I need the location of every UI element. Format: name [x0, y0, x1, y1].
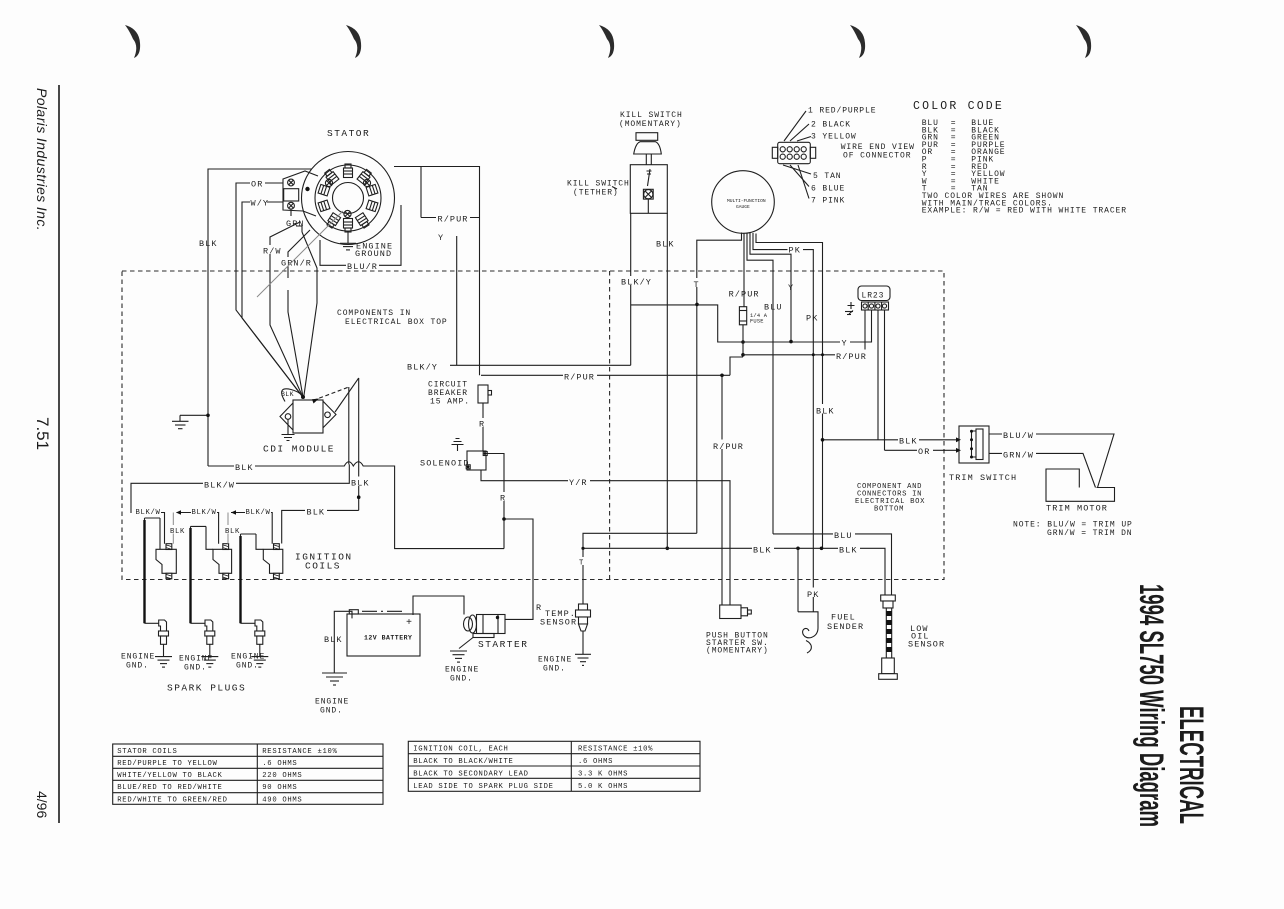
- punch hole crescents: [125, 25, 1091, 58]
- wire BLK bus lower: [583, 533, 697, 604]
- svg-text:.6 OHMS: .6 OHMS: [262, 760, 297, 768]
- wire R/W: [270, 222, 303, 397]
- svg-text:6 BLUE: 6 BLUE: [811, 185, 845, 194]
- svg-text:GND.: GND.: [450, 675, 473, 684]
- svg-text:RESISTANCE ±10%: RESISTANCE ±10%: [578, 746, 653, 754]
- svg-text:BLK: BLK: [199, 239, 218, 249]
- svg-text:1 RED/PURPLE: 1 RED/PURPLE: [808, 107, 876, 116]
- svg-text:PK: PK: [806, 314, 818, 324]
- wire BLK coil chain top: [282, 510, 359, 543]
- spark plug 3: [241, 622, 256, 624]
- engine ground battery: [322, 673, 347, 685]
- circuit breaker body: [478, 385, 488, 403]
- wire BLK to fuel sender: [797, 548, 799, 612]
- wire breaker to solenoid: [482, 403, 484, 451]
- label GRN/R: [280, 257, 309, 266]
- svg-text:BLK: BLK: [753, 546, 772, 556]
- wire R/PUR stator top-right: [394, 167, 480, 376]
- svg-text:Y: Y: [788, 283, 794, 293]
- wire Y bus to LR23: [718, 310, 872, 342]
- svg-text:EXAMPLE: R/W = RED WITH WHITE: EXAMPLE: R/W = RED WITH WHITE TRACER: [922, 207, 1127, 216]
- ignition coil 2: [191, 526, 214, 623]
- svg-text:7.51: 7.51: [33, 417, 52, 450]
- svg-text:ELECTRICAL: ELECTRICAL: [1172, 706, 1210, 824]
- CDI right tab: [323, 401, 336, 428]
- svg-text:5.0 K OHMS: 5.0 K OHMS: [578, 783, 628, 791]
- svg-text:12V BATTERY: 12V BATTERY: [364, 635, 412, 642]
- svg-text:490 OHMS: 490 OHMS: [262, 797, 302, 805]
- engine ground stator: [347, 231, 349, 244]
- svg-text:COILS: COILS: [305, 561, 341, 572]
- fuel sender: [798, 612, 818, 638]
- svg-text:GRN/R: GRN/R: [281, 259, 312, 269]
- dashed enclosure electrical box: [122, 271, 944, 580]
- starter ground: [459, 638, 473, 649]
- svg-text:R: R: [536, 603, 542, 613]
- svg-text:STATOR COILS: STATOR COILS: [117, 748, 177, 756]
- label PK lower: [806, 588, 822, 598]
- svg-text:GROUND: GROUND: [355, 249, 392, 259]
- svg-text:BLK: BLK: [324, 635, 343, 645]
- svg-text:3.3 K OHMS: 3.3 K OHMS: [578, 770, 628, 778]
- battery negative post: [349, 610, 358, 614]
- svg-text:GND.: GND.: [126, 662, 149, 671]
- junction kill BLK to ground bus: [666, 547, 670, 551]
- svg-text:BLK: BLK: [839, 546, 858, 556]
- svg-text:BLU/W: BLU/W: [1003, 431, 1034, 441]
- solenoid ground: [457, 445, 459, 452]
- wire GRN/W: [989, 453, 1096, 487]
- wire OR: [236, 183, 302, 396]
- svg-text:LR23: LR23: [862, 292, 885, 301]
- svg-text:RED/PURPLE TO YELLOW: RED/PURPLE TO YELLOW: [117, 760, 217, 768]
- svg-text:BLK/Y: BLK/Y: [621, 278, 652, 288]
- label W/Y: [250, 197, 267, 206]
- svg-text:(TETHER): (TETHER): [573, 189, 619, 198]
- svg-text:TRIM SWITCH: TRIM SWITCH: [949, 473, 1017, 483]
- wire T jog: [697, 305, 743, 342]
- svg-text:R/PUR: R/PUR: [729, 290, 760, 300]
- svg-text:GAUGE: GAUGE: [736, 204, 750, 210]
- svg-text:STATOR: STATOR: [327, 128, 370, 139]
- svg-text:GND.: GND.: [543, 665, 566, 674]
- svg-text:BLK: BLK: [170, 528, 185, 536]
- wire W/Y: [242, 202, 302, 396]
- svg-text:SENDER: SENDER: [827, 622, 864, 632]
- low oil sensor: [881, 595, 896, 601]
- wire R/PUR to push button: [721, 375, 723, 605]
- wire BLK bus horizontal: [208, 462, 504, 549]
- svg-text:KILL SWITCH: KILL SWITCH: [567, 180, 630, 189]
- wire BLK to trim switch: [823, 439, 957, 441]
- svg-text:GND.: GND.: [184, 664, 207, 673]
- svg-text:TRIM MOTOR: TRIM MOTOR: [1046, 504, 1108, 514]
- CDI convergence node: [301, 395, 305, 399]
- gauge harness fan: [697, 233, 742, 534]
- svg-text:Polaris Industries Inc.: Polaris Industries Inc.: [34, 88, 50, 231]
- connector body: [778, 142, 811, 163]
- stator coils table: [113, 744, 383, 804]
- svg-text:SOLENOID: SOLENOID: [420, 459, 470, 469]
- svg-text:R/PUR: R/PUR: [564, 373, 595, 383]
- wire CDI vertical pair: [348, 387, 350, 464]
- svg-text:PK: PK: [807, 590, 819, 600]
- svg-text:RED/WHITE TO GREEN/RED: RED/WHITE TO GREEN/RED: [117, 797, 227, 805]
- svg-text:R/PUR: R/PUR: [713, 442, 744, 452]
- svg-text:BLK/W: BLK/W: [204, 481, 235, 491]
- svg-text:SENSOR: SENSOR: [540, 618, 577, 628]
- svg-text:OF CONNECTOR: OF CONNECTOR: [843, 152, 911, 161]
- svg-text:LEAD SIDE TO SPARK PLUG SIDE: LEAD SIDE TO SPARK PLUG SIDE: [413, 783, 553, 791]
- svg-text:IGNITION COIL, EACH: IGNITION COIL, EACH: [413, 746, 508, 754]
- wire kill switch left BLK/Y: [630, 213, 632, 365]
- ignition coil table: [408, 741, 700, 791]
- svg-text:BLACK TO SECONDARY LEAD: BLACK TO SECONDARY LEAD: [413, 770, 528, 778]
- svg-text:+: +: [406, 618, 412, 629]
- label BLK/W bus: [203, 479, 236, 489]
- svg-text:(MOMENTARY): (MOMENTARY): [706, 647, 769, 656]
- connector pins: [780, 147, 806, 160]
- svg-text:BLUE/RED TO RED/WHITE: BLUE/RED TO RED/WHITE: [117, 784, 222, 792]
- svg-text:T: T: [694, 280, 700, 290]
- stator mounting screws: [325, 179, 370, 217]
- junction dot BLK: [357, 495, 361, 499]
- kill switch body: [630, 165, 667, 214]
- svg-text:R/W: R/W: [263, 247, 282, 257]
- svg-text:BLU: BLU: [764, 303, 783, 313]
- svg-text:R/PUR: R/PUR: [438, 215, 469, 225]
- svg-text:RESISTANCE ±10%: RESISTANCE ±10%: [262, 748, 337, 756]
- svg-text:WHITE/YELLOW TO BLACK: WHITE/YELLOW TO BLACK: [117, 772, 222, 780]
- svg-text:BLK: BLK: [351, 479, 370, 489]
- wire BLK/Y bus: [450, 364, 631, 366]
- svg-text:COLOR CODE: COLOR CODE: [913, 100, 1004, 113]
- ignition coil 3: [241, 534, 264, 623]
- svg-text:BLK: BLK: [816, 407, 835, 417]
- spark plug 2: [191, 622, 206, 624]
- stator black pellet: [305, 187, 309, 191]
- pin leader lines: [783, 111, 811, 199]
- svg-text:BLK: BLK: [235, 463, 254, 473]
- label R/W: [262, 245, 279, 254]
- wire BLK stator top-left: [208, 169, 312, 466]
- svg-text:BLK/Y: BLK/Y: [407, 363, 438, 373]
- battery top dash-dot: [362, 610, 402, 612]
- label T small: [578, 557, 587, 565]
- svg-text:W/Y: W/Y: [251, 199, 270, 209]
- kill switch contact pin: [648, 169, 651, 186]
- svg-text:BLK: BLK: [656, 240, 675, 250]
- wire to temp sensor with label T: [696, 532, 698, 534]
- wire OR to trim switch: [885, 449, 957, 451]
- label T: [692, 278, 701, 287]
- label BLK vertical: [350, 477, 370, 487]
- svg-text:SENSOR: SENSOR: [908, 639, 945, 649]
- svg-text:R/PUR: R/PUR: [836, 352, 867, 362]
- wire CDI dashed input: [313, 387, 349, 401]
- svg-text:(MOMENTARY): (MOMENTARY): [619, 120, 682, 129]
- svg-text:5 TAN: 5 TAN: [813, 172, 842, 181]
- gauge circle: [712, 171, 775, 234]
- starter motor: [464, 617, 473, 631]
- stator outer circle: [302, 152, 395, 245]
- svg-text:SPARK PLUGS: SPARK PLUGS: [167, 683, 246, 694]
- wire battery negative BLK to ground: [334, 611, 352, 672]
- svg-text:ENGINE: ENGINE: [445, 666, 479, 675]
- CDI BLK loop wire: [282, 389, 303, 402]
- svg-text:OR: OR: [918, 447, 930, 457]
- svg-text:3 YELLOW: 3 YELLOW: [811, 133, 857, 142]
- sidebar rule left: [58, 85, 60, 823]
- trim motor: [1046, 469, 1115, 501]
- wire BLK/Y branch to gauge: [631, 304, 697, 306]
- label BLK chain: [305, 506, 327, 516]
- kill switch plunger: [636, 133, 658, 141]
- tether pointer: [612, 187, 617, 190]
- svg-text:BLK: BLK: [281, 391, 294, 398]
- svg-text:ELECTRICAL BOX TOP: ELECTRICAL BOX TOP: [345, 318, 448, 327]
- wire kill switch right BLK: [666, 213, 668, 548]
- stator lead diagonal: [257, 211, 343, 297]
- svg-text:BLU/R: BLU/R: [347, 262, 378, 272]
- svg-text:MULTI-FUNCTION: MULTI-FUNCTION: [727, 198, 766, 204]
- svg-text:4/96: 4/96: [34, 791, 50, 818]
- wire R/PUR bus: [481, 374, 730, 376]
- wire R/PUR top jog: [730, 357, 743, 375]
- svg-text:BLK: BLK: [225, 528, 240, 536]
- dashed divider electrical box top/bottom: [609, 271, 611, 580]
- LR23 connector strip: [862, 302, 889, 310]
- svg-text:T: T: [579, 560, 584, 568]
- svg-text:GND.: GND.: [236, 662, 259, 671]
- svg-text:PK: PK: [789, 246, 801, 256]
- spark plug 1: [145, 622, 159, 624]
- label BLK/Y: [620, 276, 653, 285]
- svg-text:ENGINE: ENGINE: [121, 653, 155, 662]
- wire R/PUR bus to LR23: [743, 310, 865, 355]
- CDI left tab: [280, 403, 293, 430]
- wire BLU bus: [773, 534, 892, 595]
- svg-text:BLU: BLU: [834, 531, 853, 541]
- svg-text:90 OHMS: 90 OHMS: [262, 784, 297, 792]
- svg-text:ENGINE: ENGINE: [179, 655, 213, 664]
- wire BLU/W: [989, 434, 1114, 488]
- svg-text:BLK/W: BLK/W: [246, 509, 271, 517]
- svg-text:GND.: GND.: [320, 707, 343, 716]
- svg-text:GRN/W: GRN/W: [1003, 451, 1034, 461]
- svg-text:ENGINE: ENGINE: [231, 653, 265, 662]
- svg-text:15 AMP.: 15 AMP.: [430, 398, 470, 407]
- svg-text:BLK/W: BLK/W: [136, 509, 161, 517]
- wire Y from stator: [456, 236, 458, 365]
- svg-text:COMPONENTS IN: COMPONENTS IN: [337, 309, 411, 318]
- wire BLU/R: [320, 205, 401, 265]
- svg-text:1994 SL750 Wiring Diagram: 1994 SL750 Wiring Diagram: [1132, 584, 1170, 827]
- stator ring: [315, 165, 381, 231]
- battery box: [347, 614, 420, 656]
- ground at BLK bus left: [180, 414, 208, 416]
- trim switch box: [959, 426, 989, 463]
- svg-text:ENGINE: ENGINE: [315, 698, 349, 707]
- label R/PUR: [436, 213, 470, 223]
- temp sensor body: [579, 604, 588, 610]
- svg-text:R: R: [479, 420, 485, 430]
- wire fuse down: [742, 325, 744, 355]
- wires LR23 down: [877, 310, 879, 440]
- svg-text:BLK: BLK: [307, 508, 326, 518]
- wire GRN jumper: [291, 210, 302, 233]
- CDI ground: [287, 419, 289, 434]
- label OR: [250, 178, 265, 187]
- svg-text:KILL SWITCH: KILL SWITCH: [620, 111, 683, 120]
- svg-text:FUEL: FUEL: [831, 613, 856, 623]
- svg-text:R: R: [500, 494, 506, 504]
- LR23 battery +: [848, 302, 855, 309]
- svg-text:STARTER: STARTER: [478, 639, 528, 650]
- label BLK bus: [234, 461, 255, 471]
- svg-text:BLK/W: BLK/W: [192, 509, 217, 517]
- wire battery positive to starter: [413, 596, 464, 615]
- wire Y/R: [481, 470, 730, 605]
- wire CDI right output diagonal: [335, 378, 359, 412]
- label BLU/R: [346, 260, 379, 269]
- wire solenoid to starter R: [486, 454, 533, 620]
- svg-text:2 BLACK: 2 BLACK: [811, 121, 851, 130]
- svg-text:CDI MODULE: CDI MODULE: [263, 444, 335, 455]
- svg-text:Y/R: Y/R: [569, 478, 588, 488]
- solenoid body: [467, 451, 486, 470]
- svg-text:BLACK TO BLACK/WHITE: BLACK TO BLACK/WHITE: [413, 758, 513, 766]
- svg-text:7 PINK: 7 PINK: [811, 197, 845, 206]
- svg-text:BLK: BLK: [899, 437, 918, 447]
- LR23 box: [858, 286, 890, 301]
- stator left terminal tab: [283, 171, 318, 216]
- svg-text:OR: OR: [251, 180, 263, 190]
- svg-text:GRN/W = TRIM DN: GRN/W = TRIM DN: [1047, 529, 1133, 538]
- svg-text:Y: Y: [438, 233, 444, 243]
- fuse 1/4A: [739, 307, 746, 325]
- svg-text:FUSE: FUSE: [750, 319, 764, 325]
- stator coil bobbins: [318, 164, 378, 232]
- kill switch contact circle: [644, 190, 653, 199]
- label BLK right column: [815, 404, 835, 414]
- CDI body: [293, 400, 323, 433]
- ignition coil 1: [145, 518, 161, 623]
- svg-text:Y: Y: [842, 339, 848, 349]
- svg-text:ENGINE: ENGINE: [538, 656, 572, 665]
- svg-text:.6 OHMS: .6 OHMS: [578, 758, 613, 766]
- wire BLK/W bus: [131, 464, 349, 513]
- push button switch: [720, 605, 741, 619]
- svg-text:220 OHMS: 220 OHMS: [262, 772, 302, 780]
- svg-text:BOTTOM: BOTTOM: [874, 506, 904, 514]
- wire GRN/R: [288, 230, 310, 397]
